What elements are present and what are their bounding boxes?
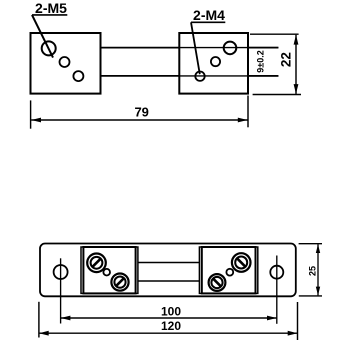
svg-text:25: 25 — [307, 266, 317, 276]
svg-text:120: 120 — [161, 319, 181, 333]
svg-text:22: 22 — [278, 52, 293, 67]
svg-text:100: 100 — [161, 305, 181, 319]
svg-text:2-M4: 2-M4 — [193, 7, 225, 23]
svg-text:2-M5: 2-M5 — [35, 0, 67, 16]
svg-text:9±0.2: 9±0.2 — [255, 50, 265, 72]
svg-text:79: 79 — [134, 104, 148, 119]
